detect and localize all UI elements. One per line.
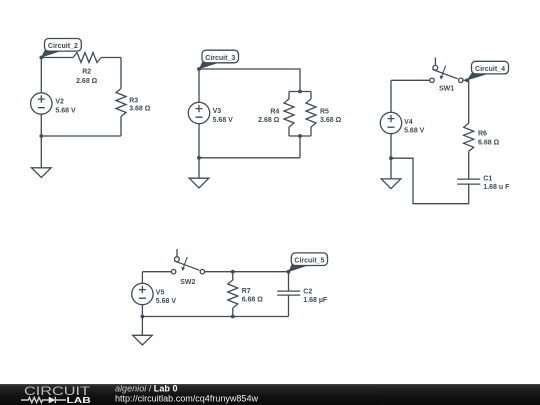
node label Circuit_5 (callout flag) bbox=[288, 253, 327, 272]
svg-text:C1: C1 bbox=[483, 176, 492, 183]
svg-text:R6: R6 bbox=[478, 131, 487, 138]
voltage source V2 bbox=[31, 93, 76, 115]
svg-text:5.68 V: 5.68 V bbox=[55, 107, 76, 114]
svg-text:R2: R2 bbox=[82, 68, 91, 75]
wire: Circuit_2 left rail bbox=[40, 58, 42, 168]
capacitor C1 1.68 uF bbox=[457, 176, 510, 191]
wire: V5+ to SW2 bbox=[142, 271, 171, 273]
CircuitLab logo bbox=[21, 384, 91, 405]
svg-text:2.68 Ω: 2.68 Ω bbox=[76, 78, 98, 85]
svg-text:C2: C2 bbox=[303, 288, 312, 295]
voltage source V4 bbox=[380, 112, 424, 134]
junction dot: R7 bottom node bbox=[231, 315, 235, 319]
wire: V4+ to SW1 bbox=[391, 79, 430, 81]
svg-text:V4: V4 bbox=[404, 119, 413, 126]
junction dot: parallel top node bbox=[298, 90, 302, 94]
resistor R5 3.68 ohm (vertical, right of pair) bbox=[306, 99, 342, 127]
ground for Circuit_4 bbox=[381, 179, 401, 189]
resistor R2 2.68 ohm (horizontal) bbox=[73, 53, 101, 85]
junction dot: R7 top node bbox=[231, 270, 235, 274]
footer title text bbox=[115, 383, 178, 393]
svg-text:Circuit_5: Circuit_5 bbox=[294, 258, 324, 265]
ground for Circuit_3 bbox=[189, 178, 209, 188]
ground for Circuit_2 bbox=[32, 168, 52, 178]
resistor R3 3.68 ohm (vertical) bbox=[116, 89, 151, 117]
junction dot: Circuit_4 node bbox=[465, 78, 469, 82]
svg-text:R5: R5 bbox=[320, 109, 329, 116]
svg-text:5.68 V: 5.68 V bbox=[213, 117, 234, 124]
junction dot: parallel bottom node bbox=[298, 134, 302, 138]
wire: SW1 to Circuit_4 node bbox=[463, 79, 469, 81]
voltage source V3 bbox=[188, 102, 233, 124]
wire: parallel combo bottom bar bbox=[289, 127, 311, 158]
footer bar bbox=[0, 384, 540, 405]
svg-text:Circuit_4: Circuit_4 bbox=[475, 66, 505, 73]
ground for Circuit_5 bbox=[133, 335, 153, 345]
voltage source V5 bbox=[132, 283, 177, 305]
svg-text:V5: V5 bbox=[156, 289, 165, 296]
svg-text:V2: V2 bbox=[55, 99, 64, 106]
svg-text:6.68 Ω: 6.68 Ω bbox=[242, 297, 264, 304]
wire: Circuit_4 right rail bbox=[468, 80, 470, 179]
junction dot: Circuit_2 top node bbox=[39, 56, 43, 60]
svg-text:1.68 u F: 1.68 u F bbox=[483, 184, 510, 191]
resistor R4 2.68 ohm (vertical, left of pair) bbox=[258, 99, 294, 127]
wire: Circuit_3 top rail bbox=[199, 69, 300, 92]
wire: C1 bottom to V4 return bbox=[391, 158, 469, 204]
svg-text:algenioi / Lab 0: algenioi / Lab 0 bbox=[115, 383, 178, 393]
junction dot: V5- bottom node bbox=[141, 315, 145, 319]
switch SW2 (SPST toggle, open) bbox=[171, 249, 204, 286]
svg-text:5.68 V: 5.68 V bbox=[156, 298, 177, 305]
node label Circuit_3 (callout flag) bbox=[199, 50, 239, 69]
junction dot: V3- bottom node bbox=[197, 156, 201, 160]
svg-text:1.68 µF: 1.68 µF bbox=[303, 297, 328, 304]
svg-text:V3: V3 bbox=[213, 108, 222, 115]
junction dot: V2- / R3 bottom node bbox=[39, 134, 43, 138]
svg-text:2.68 Ω: 2.68 Ω bbox=[258, 117, 280, 124]
footer url text bbox=[115, 394, 259, 404]
wire: Circuit_2 right rail bbox=[120, 58, 122, 137]
svg-text:R4: R4 bbox=[270, 109, 279, 116]
wire: Circuit_4 left rail bbox=[390, 80, 392, 179]
junction dot: Circuit_3 top node bbox=[197, 67, 201, 71]
wire: Circuit_5 bottom rail bbox=[142, 316, 288, 318]
svg-text:SW2: SW2 bbox=[180, 279, 195, 286]
svg-text:R3: R3 bbox=[129, 98, 138, 105]
svg-text:LAB: LAB bbox=[67, 395, 91, 405]
svg-text:Circuit_3: Circuit_3 bbox=[205, 55, 235, 62]
wire: Circuit_3 bottom rail bbox=[199, 157, 300, 159]
svg-text:6.68 Ω: 6.68 Ω bbox=[478, 140, 500, 147]
node label Circuit_4 (callout flag) bbox=[467, 61, 509, 80]
svg-text:5.68 V: 5.68 V bbox=[404, 128, 425, 135]
wire: Circuit_5 left rail bbox=[141, 272, 143, 336]
wire: SW2 to Circuit_5 node bbox=[205, 271, 289, 273]
svg-text:3.68 Ω: 3.68 Ω bbox=[320, 117, 342, 124]
junction dot: Circuit_5 node bbox=[287, 270, 291, 274]
wire: parallel combo top bar bbox=[289, 92, 311, 100]
junction dot: V4- node bbox=[389, 156, 393, 160]
capacitor C2 1.68 uF bbox=[277, 272, 328, 317]
wire: Circuit_3 left rail bbox=[198, 69, 200, 178]
wire: Circuit_2 bottom rail bbox=[41, 135, 121, 137]
resistor R6 6.68 ohm (vertical) bbox=[464, 123, 500, 151]
resistor R7 6.68 ohm (vertical) bbox=[228, 272, 263, 317]
switch SW1 (SPST toggle, open) bbox=[430, 58, 463, 93]
svg-text:R7: R7 bbox=[242, 288, 251, 295]
node label Circuit_2 (callout flag) bbox=[41, 39, 82, 58]
wire: Circuit_2 top rail bbox=[41, 57, 121, 59]
svg-text:3.68 Ω: 3.68 Ω bbox=[129, 106, 151, 113]
svg-text:Circuit_2: Circuit_2 bbox=[48, 43, 78, 50]
svg-text:SW1: SW1 bbox=[439, 85, 454, 92]
svg-text:http://circuitlab.com/cq4fruny: http://circuitlab.com/cq4frunyw854w bbox=[115, 394, 259, 404]
